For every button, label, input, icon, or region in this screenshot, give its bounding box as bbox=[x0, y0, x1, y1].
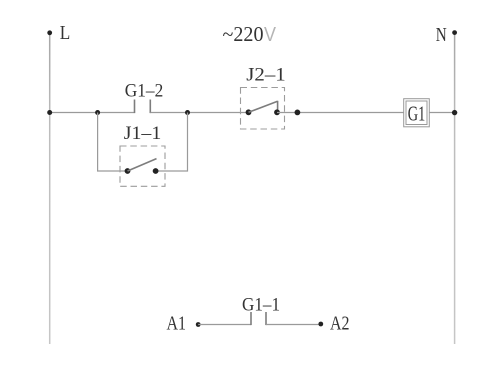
wire: A1 to contact G1-1 bbox=[198, 324, 251, 326]
contact J2-1 arm (closed onto stub) bbox=[249, 101, 278, 112]
wire: N supply bus (vertical) bbox=[454, 33, 456, 344]
svg-text:J1–1: J1–1 bbox=[124, 123, 162, 144]
terminal dot N bbox=[452, 30, 457, 35]
svg-text:V: V bbox=[264, 24, 277, 46]
contact J2-1 right contact dot bbox=[274, 109, 280, 115]
junction dot on L bus bbox=[47, 110, 52, 115]
contact G1-1 (normally-open ticks) bbox=[251, 312, 266, 325]
svg-text:G1: G1 bbox=[408, 102, 426, 126]
svg-text:N: N bbox=[436, 24, 447, 46]
wire: contact G1-1 to A2 bbox=[266, 324, 321, 326]
wire: rung segment from J2-1 to coil G1 bbox=[277, 112, 404, 114]
contact J2-1 fixed stub bbox=[277, 101, 279, 113]
wire: parallel branch down from left node to J1-1 bbox=[98, 113, 128, 172]
svg-text:G1–2: G1–2 bbox=[125, 80, 164, 101]
wire: rung segment from G1-2 to J2-1 pivot bbox=[150, 112, 248, 114]
junction dot on N bus bbox=[452, 110, 457, 115]
terminal dot after J2-1 bbox=[295, 110, 301, 116]
terminal dot A2 bbox=[318, 322, 323, 327]
contact J2-1 pivot dot bbox=[246, 109, 252, 115]
svg-text:A2: A2 bbox=[330, 313, 350, 335]
contact J1-1 right contact dot bbox=[153, 168, 159, 174]
svg-text:A1: A1 bbox=[167, 313, 187, 335]
contact J1-1 pivot dot bbox=[125, 168, 131, 174]
relay contact J2-1 dashed enclosure bbox=[241, 88, 285, 130]
wire: main rung, L bus to contact G1-2 bbox=[50, 112, 135, 114]
svg-text:~220: ~220 bbox=[223, 22, 264, 46]
wire: parallel branch from J1-1 up to right node bbox=[156, 113, 188, 172]
svg-text:G1–1: G1–1 bbox=[242, 295, 280, 316]
svg-text:L: L bbox=[60, 22, 71, 44]
relay coil G1 (double-bordered box) bbox=[404, 99, 430, 127]
wire: coil G1 to N bus bbox=[429, 112, 454, 114]
svg-text:J2–1: J2–1 bbox=[246, 65, 286, 86]
junction dot: left branch node bbox=[95, 110, 100, 115]
contact J1-1 arm (open) bbox=[128, 159, 157, 171]
wire: L supply bus (vertical) bbox=[49, 33, 51, 344]
relay contact J1-1 dashed enclosure bbox=[120, 146, 165, 186]
junction dot: right branch node bbox=[185, 110, 190, 115]
terminal dot A1 bbox=[196, 322, 201, 327]
contact G1-2 (normally-open ticks) bbox=[135, 100, 151, 114]
terminal dot L bbox=[47, 30, 52, 35]
